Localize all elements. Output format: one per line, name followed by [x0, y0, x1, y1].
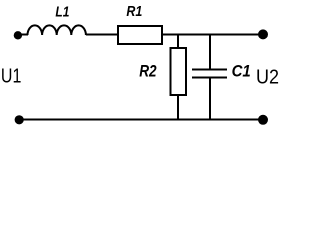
svg-text:L1: L1	[55, 3, 69, 20]
node terminal bottom-left	[15, 115, 24, 124]
wire C1 top drop	[209, 35, 211, 70]
node terminal top-right	[258, 29, 268, 39]
svg-text:U2: U2	[256, 67, 279, 89]
svg-text:U1: U1	[1, 65, 21, 87]
wire R2 bottom drop	[177, 95, 179, 119]
wire R2 top drop	[177, 35, 179, 49]
resistor R1	[118, 26, 162, 44]
capacitor C1	[192, 70, 227, 78]
svg-text:R1: R1	[126, 3, 142, 19]
svg-text:C1: C1	[232, 63, 251, 81]
node terminal top-left	[14, 31, 22, 39]
node terminal bottom-right	[258, 115, 268, 125]
wire from L1 to right terminal	[86, 34, 263, 36]
wire top rail left stub	[18, 34, 28, 36]
inductor L1	[28, 25, 86, 35]
resistor R2	[171, 48, 187, 95]
svg-text:R2: R2	[139, 62, 157, 81]
wire bottom rail	[19, 119, 263, 121]
wire C1 bottom drop	[209, 78, 211, 120]
